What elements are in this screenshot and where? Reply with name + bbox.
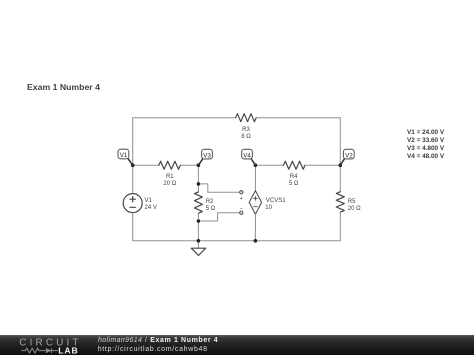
controlled source VCVS1 — [240, 191, 262, 215]
wire: right vertical to R5 — [339, 165, 341, 192]
wire: right vertical upper — [339, 118, 341, 166]
svg-text:V2: V2 — [345, 152, 353, 159]
node junction ground — [197, 239, 201, 243]
wire: V3 node down to R2 — [197, 165, 199, 192]
node junction R2 bottom tap — [197, 219, 201, 223]
label R4 value — [289, 174, 299, 187]
resistor R5 — [336, 192, 344, 212]
wire: VCVS control + tap — [198, 184, 239, 192]
node junction V2 — [339, 163, 343, 167]
resistor R2 — [194, 192, 202, 213]
label R1 value — [163, 174, 176, 187]
svg-text:R3: R3 — [242, 127, 250, 133]
wire: top left segment — [133, 117, 236, 119]
wire: left vertical upper — [132, 118, 134, 166]
svg-text:+: + — [240, 196, 243, 202]
svg-text:VCVS1: VCVS1 — [266, 198, 286, 204]
svg-text:24 V: 24 V — [145, 205, 157, 211]
node junction V1 — [131, 163, 135, 167]
resistor R4 — [284, 161, 306, 169]
wire: top right segment — [256, 117, 340, 119]
footer credit line — [98, 337, 218, 344]
svg-text:20 Ω: 20 Ω — [348, 206, 361, 212]
resistor R1 — [159, 161, 181, 169]
label V1 source value — [145, 198, 157, 211]
node tag V1 — [118, 149, 133, 165]
voltage source V1 — [123, 194, 142, 213]
CircuitLab logo — [0, 335, 95, 355]
node junction VCVS bottom — [254, 239, 258, 243]
svg-text:R1: R1 — [166, 174, 174, 180]
svg-text:−: − — [240, 206, 243, 212]
wire: bottom rail — [133, 240, 341, 242]
svg-text:V3: V3 — [203, 152, 211, 159]
label R2 value — [206, 199, 216, 212]
wire: left vertical below source — [132, 213, 134, 241]
title — [27, 82, 100, 92]
wire: right vertical below R5 — [339, 213, 341, 240]
svg-text:20 Ω: 20 Ω — [163, 181, 176, 187]
svg-text:R2: R2 — [206, 199, 214, 205]
node tag V3 — [198, 149, 212, 165]
svg-text:10: 10 — [265, 205, 272, 211]
wire: VCVS control - tap — [198, 213, 239, 221]
label VCVS1 control polarity — [240, 196, 243, 212]
footer url line — [98, 346, 208, 353]
node tag V2 — [340, 149, 354, 165]
svg-text:R4: R4 — [290, 174, 298, 180]
wire: middle right (V4 node to R4) — [255, 164, 283, 166]
svg-text:V1: V1 — [120, 152, 128, 159]
node junction V3 — [197, 163, 201, 167]
svg-text:V1: V1 — [145, 198, 153, 204]
resistor R3 — [236, 114, 256, 122]
label R5 value — [348, 199, 361, 212]
node voltage annotations — [407, 129, 444, 160]
svg-text:8 Ω: 8 Ω — [241, 134, 251, 140]
wire: R4 to V2 node — [304, 164, 340, 166]
wire: ground stub — [197, 241, 199, 248]
label VCVS1 value — [265, 198, 286, 211]
wire: VCVS1 bottom to rail — [254, 214, 256, 241]
node junction R2 top tap — [197, 182, 201, 186]
wire: V4 node down to VCVS1 — [254, 165, 256, 190]
svg-text:R5: R5 — [348, 199, 356, 205]
node junction V4 — [254, 163, 258, 167]
svg-text:5 Ω: 5 Ω — [289, 181, 299, 187]
label R3 value — [241, 127, 251, 140]
wire: R1 to V3 node — [181, 164, 198, 166]
svg-text:5 Ω: 5 Ω — [206, 206, 216, 212]
svg-text:V4: V4 — [243, 152, 251, 159]
wire: R2 bottom to rail — [197, 213, 199, 240]
ground — [191, 248, 205, 255]
wire: middle left (V1 node to R1) — [133, 164, 159, 166]
node tag V4 — [242, 149, 256, 165]
svg-text:LAB: LAB — [58, 345, 78, 355]
wire: left vertical to source — [132, 165, 134, 193]
footer bar — [0, 335, 474, 355]
